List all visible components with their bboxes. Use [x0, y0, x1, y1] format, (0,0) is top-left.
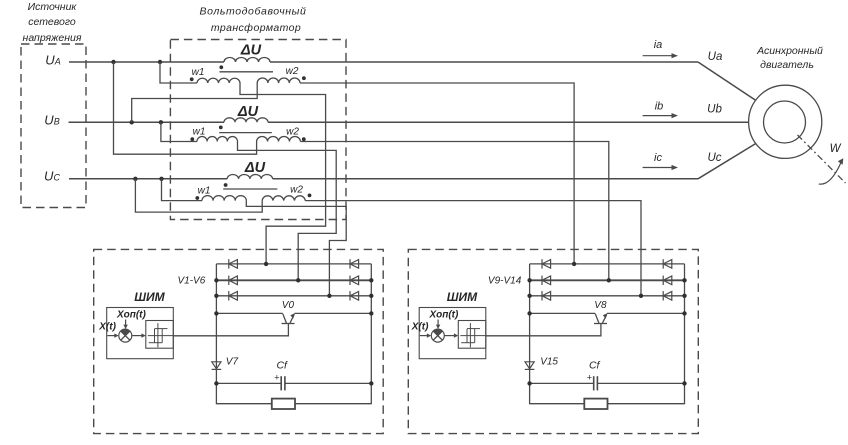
svg-text:w2: w2	[286, 127, 299, 138]
bridge row3 converter 1	[216, 295, 371, 297]
PWM block box PWM 1	[107, 308, 174, 359]
junction feed row2 converter 2	[607, 278, 611, 282]
secondary winding dU phase C	[227, 174, 272, 178]
relay hysteresis glyph PWM 2	[460, 335, 486, 337]
wire phase B to motor	[268, 121, 749, 123]
wire w1-C tap to converter 1 row3	[246, 201, 346, 296]
bridge row1 converter 1	[216, 263, 371, 265]
svg-text:V15: V15	[540, 357, 558, 368]
wire w2-B left to phase A	[114, 62, 257, 154]
polarity dot w1-A	[190, 77, 194, 81]
source box (Источник сетевого напряжения)	[21, 44, 86, 208]
wire w1-A tap to converter 1 row1	[240, 83, 326, 264]
resistor load converter 1	[272, 399, 295, 409]
junction left rail y295.8 converter 2	[527, 294, 531, 298]
primary winding w2-A	[257, 78, 300, 83]
junction left rail y280.3 converter 2	[527, 278, 531, 282]
wire cap line left converter 2	[530, 382, 594, 384]
diode V4	[349, 276, 351, 285]
svg-text:ib: ib	[655, 101, 664, 113]
resistor load converter 2	[584, 399, 607, 409]
svg-text:Xоп(t): Xоп(t)	[116, 309, 147, 320]
junction phase B x160.9	[159, 120, 163, 124]
svg-text:UA: UA	[45, 52, 60, 67]
wire w2-A left to phase B	[132, 83, 258, 122]
junction collector rail converter 1	[214, 311, 218, 315]
bridge row2 converter 1	[216, 279, 371, 281]
svg-text:двигатель: двигатель	[760, 59, 814, 71]
svg-text:UC: UC	[44, 168, 60, 183]
junction phase C x161.5	[159, 177, 163, 181]
svg-text:Xоп(t): Xоп(t)	[428, 309, 459, 320]
bridge row2 converter 2	[530, 279, 685, 281]
wire w2-C left to phase C	[135, 179, 262, 212]
diode V11	[541, 276, 543, 285]
junction feed row1 converter 2	[572, 262, 576, 266]
svg-text:X(t): X(t)	[98, 322, 116, 333]
transistor V0	[282, 323, 295, 325]
relay element box PWM 2	[458, 321, 486, 349]
polarity dot w2-C	[308, 194, 312, 198]
diode V7	[212, 362, 221, 369]
svg-text:V1-V6: V1-V6	[178, 276, 206, 287]
diode V6	[349, 291, 351, 300]
arrow ib	[643, 115, 673, 117]
svg-text:w1: w1	[193, 127, 206, 138]
junction feed row3 converter 2	[639, 294, 643, 298]
wire bottom left converter 1	[216, 403, 271, 405]
wire phase B from UB	[69, 121, 225, 123]
polarity dot dU-C	[224, 183, 228, 187]
svg-text:Вольтодобавочный: Вольтодобавочный	[200, 6, 307, 18]
diode V9	[541, 259, 543, 268]
svg-text:X(t): X(t)	[411, 322, 429, 333]
transistor V8	[594, 323, 607, 325]
svg-text:трансформатор: трансформатор	[211, 22, 301, 34]
svg-text:Cf: Cf	[276, 360, 288, 372]
polarity dot dU-B	[219, 126, 223, 130]
junction right rail y295.8 converter 1	[369, 294, 373, 298]
summing circle PWM 1	[119, 329, 132, 342]
svg-text:Uc: Uc	[707, 152, 721, 164]
w1 phase C lead	[162, 179, 203, 201]
wire collector V0	[216, 312, 282, 314]
junction phase A x113	[111, 60, 115, 64]
w1 phase A lead	[160, 62, 197, 83]
wire w2-B right to converter 2 row2	[300, 142, 608, 281]
junction emitter rail converter 2	[682, 311, 686, 315]
wire cap line right converter 2	[597, 382, 684, 384]
primary winding w1-C	[202, 196, 246, 201]
svg-text:ШИМ: ШИМ	[447, 290, 478, 304]
core line phase A	[220, 71, 274, 73]
arrow X(t) input PWM 2	[420, 335, 430, 337]
junction right rail y280.3 converter 1	[369, 278, 373, 282]
wire phase C diagonal to motor	[698, 144, 756, 179]
wire emitter V8	[607, 312, 685, 314]
relay element box PWM 1	[146, 321, 174, 349]
junction cap right converter 1	[369, 381, 373, 385]
wire bottom left converter 2	[530, 403, 585, 405]
svg-text:w2: w2	[290, 185, 303, 196]
junction phase B x131.7	[130, 120, 134, 124]
svg-text:+: +	[587, 373, 592, 383]
wire collector V8	[530, 312, 596, 314]
secondary winding dU phase A	[224, 58, 270, 63]
junction feed row3 converter 1	[327, 294, 331, 298]
arrow Xоп(t) input PWM 2	[437, 320, 439, 328]
primary winding w1-A	[197, 78, 240, 83]
wire phase C from UC	[69, 178, 227, 180]
junction feed row1 converter 1	[264, 262, 268, 266]
wire phase C to motor	[273, 178, 698, 180]
core line phase B	[219, 132, 272, 134]
relay hysteresis glyph PWM 1	[148, 335, 174, 337]
svg-text:V8: V8	[594, 300, 607, 311]
junction phase A x160	[158, 60, 162, 64]
svg-text:w1: w1	[198, 186, 211, 197]
svg-text:Ub: Ub	[707, 104, 722, 116]
svg-text:Асинхронный: Асинхронный	[756, 45, 823, 57]
svg-text:напряжения: напряжения	[23, 32, 82, 44]
wire w1-B tap to converter 1 row2	[238, 142, 337, 281]
junction collector rail converter 2	[527, 311, 531, 315]
booster transformer box	[170, 40, 346, 220]
svg-text:ΔU: ΔU	[244, 160, 266, 176]
svg-text:V9-V14: V9-V14	[488, 276, 522, 287]
bridge row3 converter 2	[530, 295, 685, 297]
wire phase A diagonal to motor	[698, 62, 756, 100]
primary winding w2-C	[262, 196, 305, 201]
capacitor Cf	[280, 376, 282, 390]
junction phase C x135.4	[133, 177, 137, 181]
PWM block box PWM 2	[419, 308, 486, 359]
svg-text:ШИМ: ШИМ	[134, 290, 165, 304]
svg-text:ic: ic	[654, 152, 662, 164]
diode V15	[525, 362, 534, 369]
junction feed row2 converter 1	[296, 278, 300, 282]
junction right rail y280.3 converter 2	[682, 278, 686, 282]
converter box converter 1	[94, 249, 384, 433]
arrow ia	[643, 55, 673, 57]
diode V3	[228, 276, 230, 285]
bridge right rail converter 1	[370, 264, 372, 404]
polarity dot dU-A	[219, 65, 223, 69]
bridge left rail converter 2	[529, 264, 531, 404]
arrow to relay PWM 1	[132, 335, 144, 337]
primary winding w1-B	[197, 137, 237, 142]
junction cap left converter 1	[214, 381, 218, 385]
wire emitter V0	[295, 312, 372, 314]
arrow X(t) input PWM 1	[107, 335, 117, 337]
polarity dot w1-B	[190, 137, 194, 141]
svg-text:UB: UB	[44, 112, 59, 127]
rotation arrow	[819, 162, 842, 185]
polarity dot w2-B	[302, 137, 306, 141]
junction left rail y295.8 converter 1	[214, 294, 218, 298]
secondary winding dU phase B	[224, 118, 268, 123]
bridge right rail converter 2	[684, 264, 686, 404]
core line phase C	[223, 188, 277, 190]
svg-text:W: W	[830, 143, 842, 155]
diode V10	[662, 259, 664, 268]
primary winding w2-B	[257, 136, 301, 141]
svg-text:Ua: Ua	[708, 51, 723, 63]
diode V2	[349, 259, 351, 268]
wire cap line left converter 1	[216, 382, 281, 384]
w1 phase B lead	[161, 122, 197, 141]
diode V12	[662, 276, 664, 285]
motor inner circle	[764, 101, 806, 143]
svg-text:+: +	[274, 373, 279, 383]
arrow ic	[643, 167, 673, 169]
motor outer circle	[749, 85, 822, 158]
junction cap left converter 2	[527, 381, 531, 385]
polarity dot w2-A	[302, 76, 306, 80]
wire bottom right converter 2	[608, 403, 685, 405]
arrow Xоп(t) input PWM 1	[125, 320, 127, 328]
svg-text:Источник: Источник	[28, 1, 78, 13]
wire phase A from UA	[69, 61, 224, 63]
svg-text:ia: ia	[654, 39, 663, 51]
wire phase A to motor	[270, 61, 698, 63]
arrow to relay PWM 2	[444, 335, 456, 337]
wire w2-A right to converter 2 row1	[300, 83, 574, 264]
svg-text:ΔU: ΔU	[240, 43, 262, 59]
polarity dot w1-C	[195, 196, 199, 200]
svg-text:w1: w1	[192, 67, 205, 78]
svg-text:w2: w2	[286, 66, 299, 77]
svg-text:V0: V0	[282, 300, 295, 311]
diode V14	[662, 291, 664, 300]
junction cap right converter 2	[682, 381, 686, 385]
junction right rail y295.8 converter 2	[682, 294, 686, 298]
diode V13	[541, 291, 543, 300]
wire bottom right converter 1	[295, 403, 371, 405]
wire w2-C right to converter 2 row3	[305, 201, 641, 296]
summing circle PWM 2	[431, 329, 444, 342]
svg-text:Cf: Cf	[589, 360, 601, 372]
wire base V8 to PWM	[486, 324, 601, 336]
converter box converter 2	[408, 249, 698, 433]
svg-text:сетевого: сетевого	[28, 16, 76, 28]
wire cap line right converter 1	[285, 382, 371, 384]
junction emitter rail converter 1	[369, 311, 373, 315]
motor shaft dash-dot	[798, 135, 846, 183]
capacitor Cf2	[593, 376, 595, 390]
junction left rail y280.3 converter 1	[214, 278, 218, 282]
svg-text:ΔU: ΔU	[237, 104, 259, 120]
bridge row1 converter 2	[530, 263, 685, 265]
diode V1	[228, 259, 230, 268]
diode V5	[228, 291, 230, 300]
svg-text:V7: V7	[226, 357, 239, 368]
wire base V0 to PWM	[173, 324, 288, 336]
bridge left rail converter 1	[215, 264, 217, 404]
